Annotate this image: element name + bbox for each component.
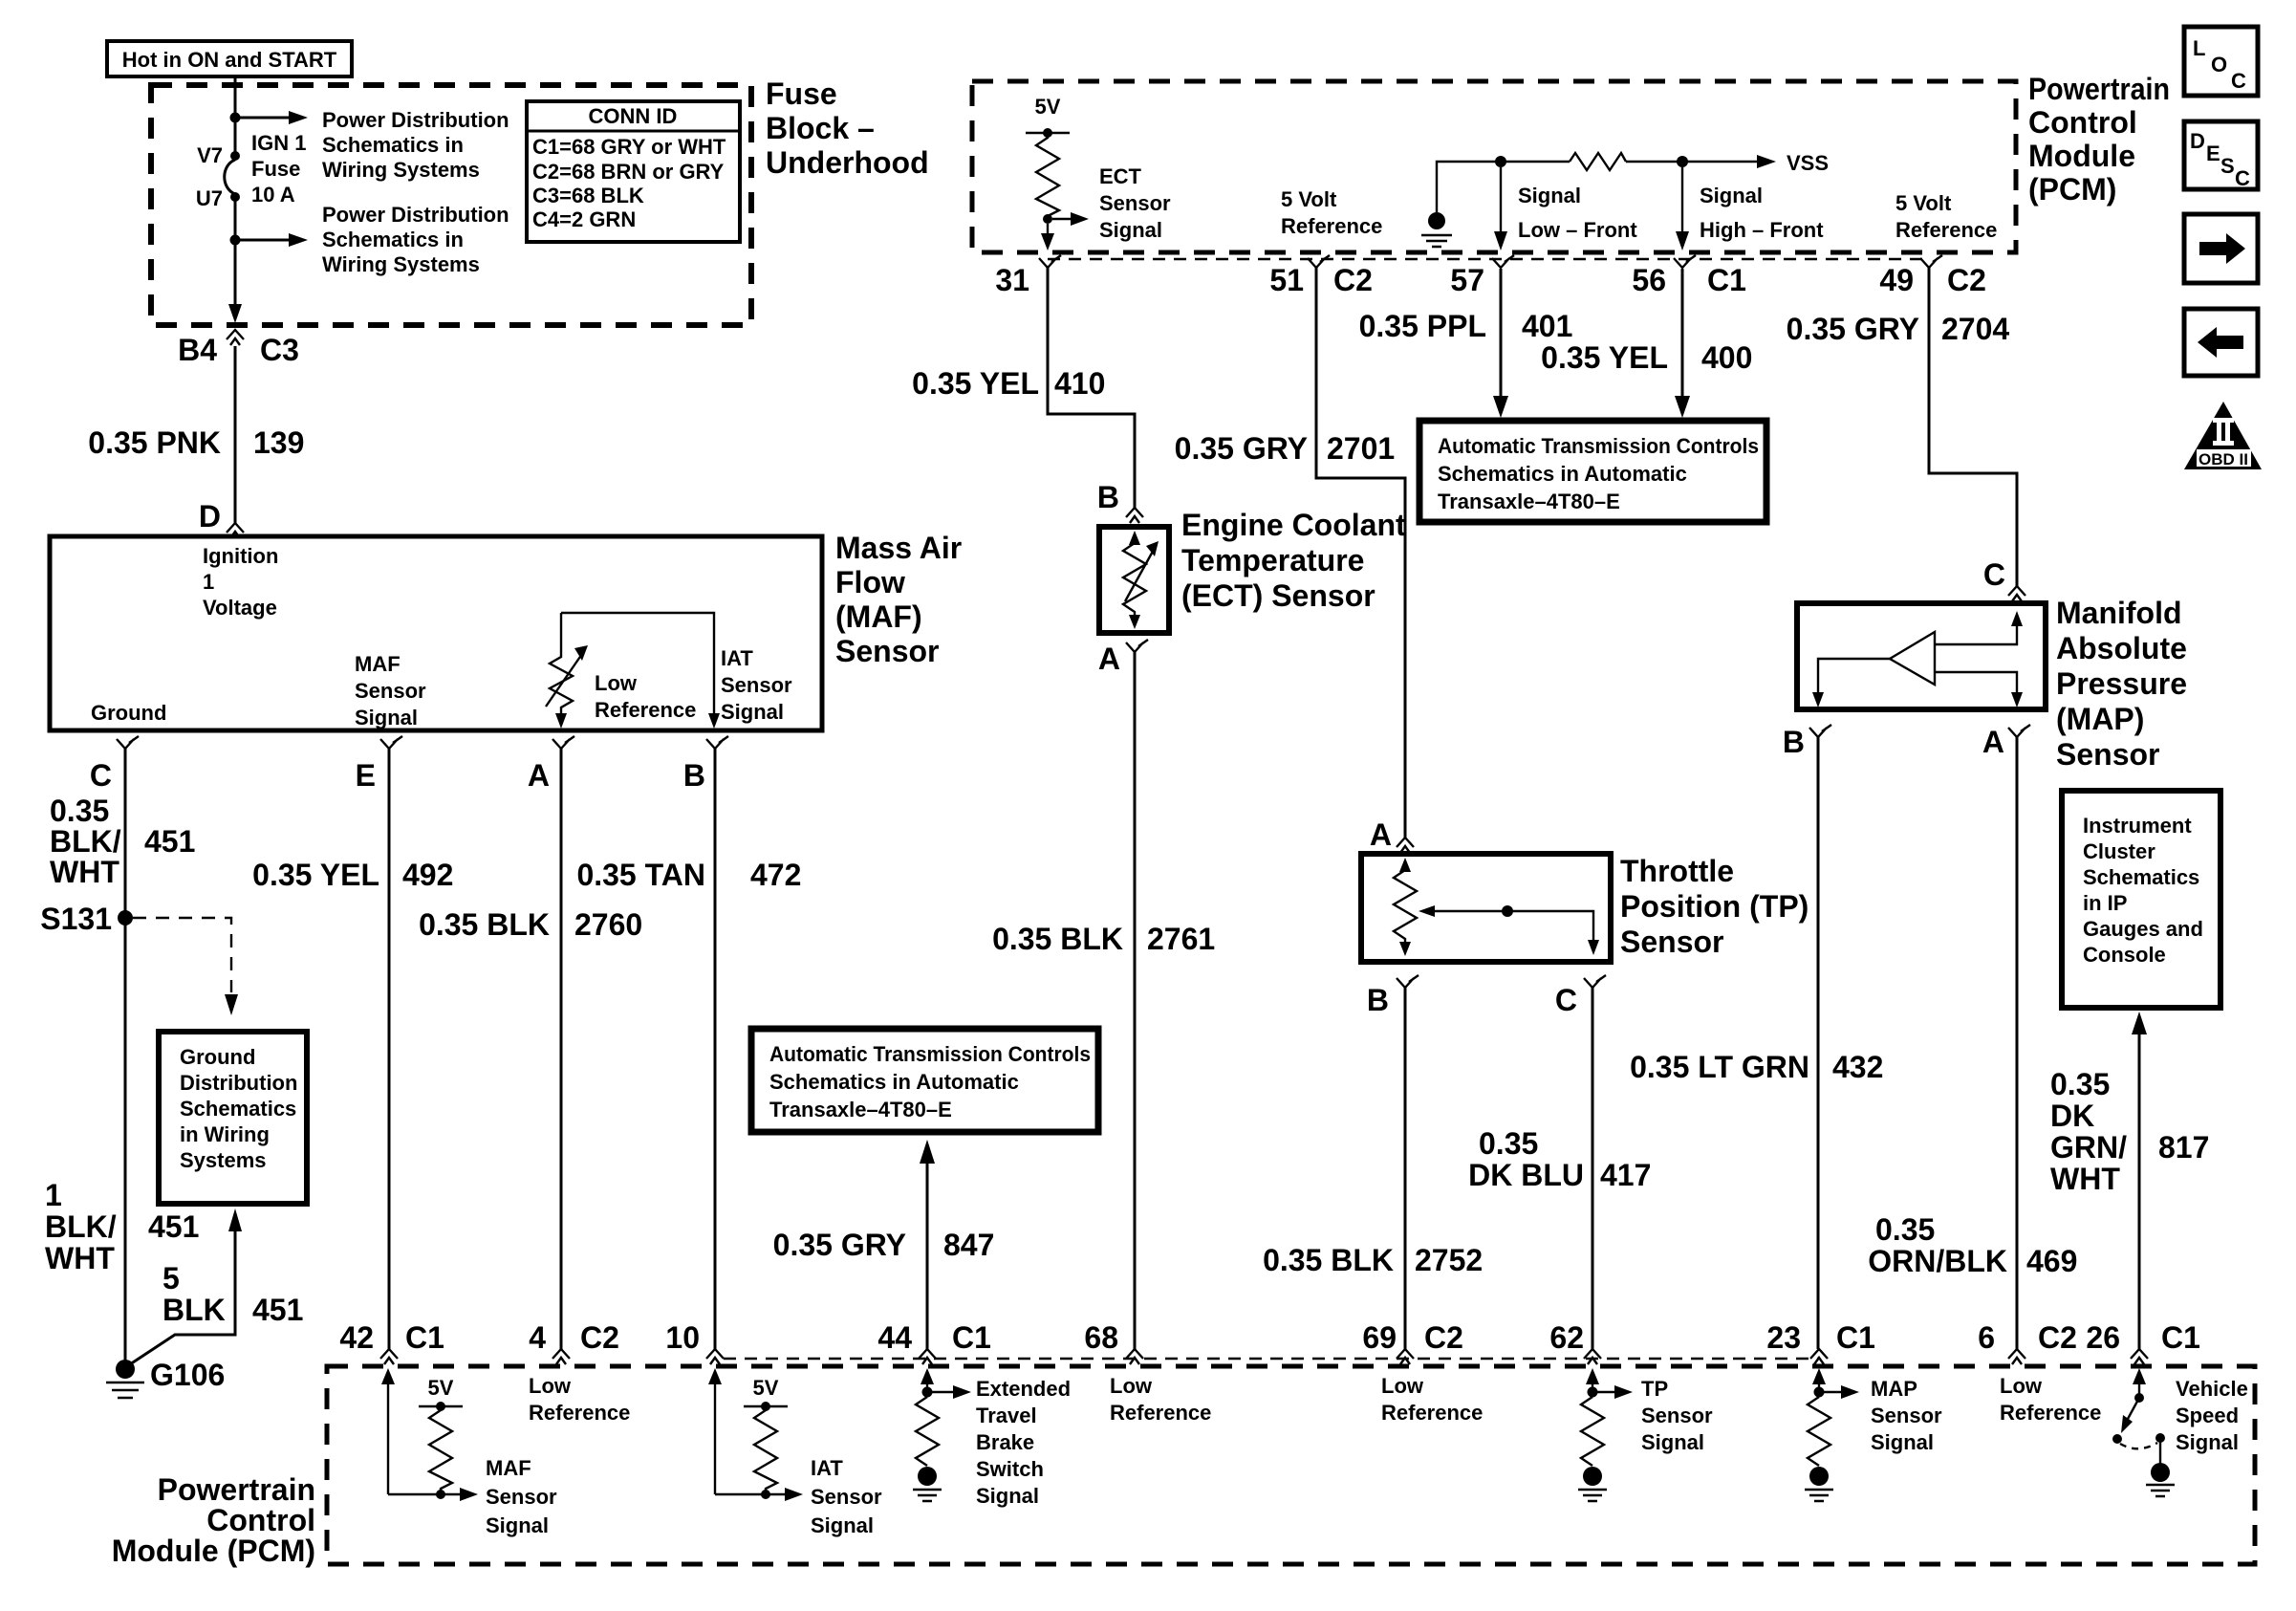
svg-text:139: 139	[253, 425, 304, 460]
svg-text:High – Front: High – Front	[1700, 218, 1824, 242]
svg-text:C: C	[90, 758, 112, 793]
svg-text:451: 451	[148, 1209, 199, 1244]
svg-text:C2=68 BRN or GRY: C2=68 BRN or GRY	[532, 160, 725, 184]
svg-text:WHT: WHT	[45, 1241, 115, 1275]
svg-text:Reference: Reference	[1110, 1401, 1211, 1425]
svg-text:CONN ID: CONN ID	[589, 104, 678, 128]
wire: arrow down to pin 31	[1047, 224, 1049, 235]
svg-text:2760: 2760	[574, 907, 642, 942]
svg-text:Control: Control	[206, 1503, 315, 1537]
svg-text:Extended: Extended	[976, 1377, 1071, 1401]
svg-text:(ECT) Sensor: (ECT) Sensor	[1181, 578, 1375, 613]
svg-text:E: E	[2206, 142, 2220, 165]
wire: 0.35 GRY 2701 pin 51 to TP A	[1316, 268, 1405, 838]
svg-text:Module (PCM): Module (PCM)	[112, 1534, 315, 1568]
svg-text:in IP: in IP	[2083, 891, 2127, 915]
svg-text:OBD II: OBD II	[2199, 450, 2248, 468]
wire: MAP amp bottom line to pin A	[1935, 672, 2017, 694]
svg-text:MAP: MAP	[1871, 1377, 1917, 1401]
svg-text:S: S	[2220, 154, 2235, 178]
svg-text:Hot in ON and START: Hot in ON and START	[122, 48, 337, 72]
svg-text:Signal: Signal	[2176, 1430, 2239, 1454]
wire: 0.35 GRY 2704 pin 49 to MAP C	[1929, 268, 2017, 586]
wire: 0.35 PPL 401 pin 57 to ATC box	[1500, 269, 1503, 396]
svg-text:Mass Air: Mass Air	[835, 531, 962, 565]
box: Instrument Cluster Schematics in IP Gauges and Console	[2062, 791, 2220, 1008]
svg-text:Underhood: Underhood	[766, 145, 929, 180]
wire: MAF sensor signal input arrow (pin 42)	[387, 1382, 389, 1494]
svg-text:Power Distribution: Power Distribution	[322, 203, 509, 227]
connector pin A (MAF)	[552, 736, 574, 749]
svg-text:C1: C1	[1836, 1320, 1875, 1355]
box: Throttle Position (TP) Sensor	[1361, 854, 1611, 962]
svg-text:Sensor: Sensor	[721, 673, 792, 697]
svg-text:Pressure: Pressure	[2056, 666, 2187, 701]
svg-text:1: 1	[203, 570, 214, 594]
connector pin 44 C1	[919, 1349, 936, 1364]
svg-text:C2: C2	[1947, 263, 1986, 297]
svg-text:410: 410	[1054, 366, 1105, 401]
svg-text:C: C	[1983, 557, 2005, 592]
box: Engine Coolant Temperature (ECT) Sensor	[1099, 527, 1169, 633]
svg-text:Absolute: Absolute	[2056, 631, 2187, 665]
svg-text:Voltage: Voltage	[203, 596, 277, 620]
svg-text:Low – Front: Low – Front	[1518, 218, 1637, 242]
svg-text:Sensor: Sensor	[1641, 1404, 1713, 1427]
connector pin 31	[1039, 255, 1061, 268]
connector pin E (MAF)	[380, 736, 402, 749]
svg-text:68: 68	[1084, 1320, 1118, 1355]
connector pin 26 C1	[2131, 1349, 2148, 1364]
svg-text:Powertrain: Powertrain	[158, 1472, 315, 1507]
svg-text:U7: U7	[196, 186, 223, 210]
ground (pin 23 circuit)	[1809, 1467, 1829, 1486]
svg-text:10 A: 10 A	[251, 183, 295, 207]
wire: 0.35 ORN/BLK 469 MAP A to PCM 6	[2016, 737, 2019, 1349]
wire: 0.35 GRY 847 PCM 44 up to ATC box	[926, 1162, 929, 1349]
wire: MAP sensor signal arrow (pin 23)	[1818, 1382, 1820, 1392]
svg-text:Fuse: Fuse	[766, 76, 837, 111]
svg-text:Schematics in: Schematics in	[322, 228, 464, 251]
wire: ground up and right to junction	[1437, 162, 1570, 212]
svg-text:23: 23	[1766, 1320, 1801, 1355]
svg-text:0.35 PNK: 0.35 PNK	[88, 425, 221, 460]
svg-text:MAF: MAF	[355, 652, 401, 676]
svg-text:Ground: Ground	[91, 701, 166, 725]
svg-text:Signal: Signal	[1518, 184, 1581, 207]
svg-text:Gauges and: Gauges and	[2083, 917, 2203, 941]
box: Hot in ON and START	[107, 41, 352, 76]
svg-text:492: 492	[402, 858, 453, 892]
svg-text:Signal: Signal	[1641, 1430, 1704, 1454]
connector pin A (MAP)	[2008, 725, 2030, 737]
svg-text:D: D	[2190, 129, 2205, 153]
ground (pin 44 circuit)	[918, 1467, 937, 1486]
svg-text:2752: 2752	[1415, 1243, 1483, 1277]
svg-text:0.35 PPL: 0.35 PPL	[1359, 309, 1486, 343]
icon: OBD II triangle	[2184, 402, 2262, 469]
svg-text:0.35 YEL: 0.35 YEL	[252, 858, 379, 892]
svg-text:Instrument: Instrument	[2083, 814, 2192, 838]
svg-text:TP: TP	[1641, 1377, 1668, 1401]
connector pin B (MAF)	[706, 736, 728, 749]
wire: below fuse to lower junction	[234, 200, 237, 237]
svg-text:O: O	[2211, 53, 2227, 76]
svg-text:Systems: Systems	[180, 1148, 267, 1172]
svg-text:Schematics: Schematics	[180, 1097, 296, 1121]
svg-text:451: 451	[144, 824, 195, 859]
switch: vehicle speed signal (pin 26)	[2138, 1382, 2140, 1398]
svg-text:Sensor: Sensor	[486, 1485, 557, 1509]
svg-text:4: 4	[529, 1320, 546, 1355]
svg-text:ORN/BLK: ORN/BLK	[1868, 1244, 2007, 1278]
svg-text:C: C	[1555, 983, 1577, 1017]
svg-text:62: 62	[1549, 1320, 1584, 1355]
svg-text:Signal: Signal	[1700, 184, 1763, 207]
svg-text:IAT: IAT	[721, 646, 753, 670]
svg-text:31: 31	[995, 263, 1029, 297]
svg-text:Reference: Reference	[529, 1401, 630, 1425]
svg-text:Schematics in Automatic: Schematics in Automatic	[1438, 462, 1687, 486]
wire: thin dashed connector line (bottom PCM pins)	[724, 1358, 1819, 1360]
connector pin C (MAP)	[2008, 586, 2025, 601]
svg-text:5 Volt: 5 Volt	[1281, 187, 1337, 211]
svg-text:C2: C2	[580, 1320, 619, 1355]
svg-text:BLK/: BLK/	[45, 1209, 117, 1244]
svg-text:DK: DK	[2050, 1099, 2094, 1133]
connector pin 4 C2	[552, 1349, 570, 1364]
connector pin B (ECT)	[1126, 508, 1143, 523]
svg-text:Vehicle: Vehicle	[2176, 1377, 2248, 1401]
svg-text:B4: B4	[178, 333, 217, 367]
connector pin 51 C2	[1308, 255, 1330, 268]
svg-text:Schematics in: Schematics in	[322, 133, 464, 157]
node: splice S131	[118, 910, 133, 925]
svg-text:Console: Console	[2083, 943, 2166, 967]
svg-text:0.35: 0.35	[1875, 1212, 1935, 1247]
box: Mass Air Flow (MAF) Sensor	[50, 536, 822, 730]
svg-text:26: 26	[2086, 1320, 2120, 1355]
box: Fuse Block Underhood (dashed)	[151, 85, 751, 325]
svg-text:451: 451	[252, 1293, 303, 1327]
svg-text:C4=2 GRN: C4=2 GRN	[532, 207, 636, 231]
resistor: IAT variable resistor (in MAF box)	[550, 613, 573, 715]
svg-text:0.35 TAN: 0.35 TAN	[576, 858, 705, 892]
wire: MAF E to PCM 42 (0.35 YEL 492)	[388, 749, 391, 1349]
svg-text:Low: Low	[1110, 1374, 1153, 1398]
wire: 0.35 YEL 400 pin 56 to ATC box	[1681, 269, 1684, 396]
wire: 0.35 BLK/WHT 451 from pin C down	[124, 749, 127, 1361]
wire: CONN ID header separator	[527, 130, 740, 133]
wire: TP sensor signal arrow (pin 62)	[1592, 1382, 1593, 1392]
svg-text:Sensor: Sensor	[1620, 925, 1723, 959]
connector pin 6 C2	[2008, 1349, 2025, 1364]
ground G106	[116, 1360, 135, 1379]
box: Manifold Absolute Pressure (MAP) Sensor	[1797, 603, 2046, 709]
svg-text:Power Distribution: Power Distribution	[322, 108, 509, 132]
svg-text:B: B	[1783, 725, 1805, 759]
svg-text:0.35 YEL: 0.35 YEL	[1541, 340, 1668, 375]
svg-text:Ignition: Ignition	[203, 544, 278, 568]
resistor: IAT pull-up (in PCM)	[754, 1406, 777, 1494]
svg-text:Position (TP): Position (TP)	[1620, 889, 1809, 924]
svg-text:2761: 2761	[1147, 922, 1215, 956]
wire: arrow right Extended Travel Brake Switch Signal	[932, 1391, 953, 1393]
node: junction signal low	[1495, 156, 1506, 167]
svg-text:Flow: Flow	[835, 565, 905, 599]
svg-text:C1: C1	[2161, 1320, 2200, 1355]
svg-text:Signal: Signal	[811, 1513, 874, 1537]
svg-text:400: 400	[1701, 340, 1752, 375]
svg-text:57: 57	[1450, 263, 1484, 297]
svg-text:BLK/: BLK/	[50, 824, 121, 859]
svg-text:A: A	[1098, 642, 1120, 676]
wire: to VSS arrow	[1626, 161, 1757, 163]
svg-text:0.35 LT GRN: 0.35 LT GRN	[1630, 1050, 1809, 1084]
icon: LOC box	[2184, 27, 2258, 96]
svg-text:Switch: Switch	[976, 1457, 1044, 1481]
svg-text:B: B	[1367, 983, 1389, 1017]
icon: left arrow box	[2184, 309, 2258, 376]
svg-text:Module: Module	[2028, 139, 2135, 173]
svg-text:V7: V7	[197, 143, 223, 167]
svg-text:ECT: ECT	[1099, 164, 1142, 188]
svg-text:5 Volt: 5 Volt	[1895, 191, 1952, 215]
svg-text:(MAP): (MAP)	[2056, 702, 2144, 736]
svg-text:6: 6	[1978, 1320, 1995, 1355]
svg-text:0.35 GRY: 0.35 GRY	[1787, 312, 1919, 346]
svg-text:MAF: MAF	[486, 1456, 531, 1480]
svg-text:Control: Control	[2028, 105, 2137, 140]
wire: arrow down Signal Low - Front	[1500, 167, 1502, 233]
svg-text:Sensor: Sensor	[835, 634, 939, 668]
svg-text:Low: Low	[2000, 1374, 2043, 1398]
connector pin 23 C1	[1810, 1349, 1828, 1364]
connector pin D at MAF box	[227, 523, 244, 538]
svg-text:C2: C2	[2038, 1320, 2077, 1355]
node: junction signal high	[1677, 156, 1688, 167]
svg-text:Sensor: Sensor	[355, 679, 426, 703]
svg-text:Sensor: Sensor	[2056, 737, 2159, 772]
connector pin 69 C2	[1397, 1349, 1414, 1364]
svg-text:Signal: Signal	[976, 1484, 1039, 1508]
connector pin C (TP)	[1584, 975, 1606, 988]
connector pin A (TP)	[1397, 838, 1414, 853]
connector pin 57	[1492, 255, 1514, 268]
svg-text:A: A	[1982, 725, 2004, 759]
connector pin B4/C3 (fuse block exit)	[227, 330, 244, 345]
svg-text:Powertrain: Powertrain	[2028, 72, 2170, 106]
box: Powertrain Control Module PCM (top, dashed)	[972, 81, 2016, 252]
svg-text:Engine Coolant: Engine Coolant	[1181, 508, 1406, 542]
svg-text:C3=68 BLK: C3=68 BLK	[532, 184, 644, 207]
svg-text:Reference: Reference	[1895, 218, 1997, 242]
svg-text:Automatic Transmission Control: Automatic Transmission Controls	[1438, 434, 1759, 458]
connector pin 10	[706, 1349, 724, 1364]
wire: arrow right ECT Sensor Signal	[1052, 218, 1071, 220]
resistor: ECT thermistor	[1129, 531, 1140, 545]
wire: branch arrow to Power Distribution (upper)	[238, 117, 289, 120]
svg-text:5V: 5V	[1035, 95, 1061, 119]
resistor: ECT pull-up (in PCM)	[1036, 133, 1059, 216]
svg-text:S131: S131	[40, 902, 112, 936]
wire: arrow right MAP Sensor Signal	[1824, 1391, 1841, 1393]
svg-text:472: 472	[750, 858, 801, 892]
box: CONN ID table	[527, 101, 740, 242]
svg-text:0.35: 0.35	[2050, 1067, 2110, 1101]
resistor: TP potentiometer	[1399, 858, 1411, 872]
svg-text:Signal: Signal	[721, 700, 784, 724]
svg-text:2704: 2704	[1941, 312, 2009, 346]
svg-text:E: E	[356, 758, 376, 793]
svg-text:Signal: Signal	[1099, 218, 1162, 242]
wire: from Hot box down into fuse block	[234, 76, 237, 115]
svg-text:Reference: Reference	[595, 698, 696, 722]
svg-text:L: L	[2193, 36, 2205, 60]
box: Automatic Transmission Controls (left)	[751, 1029, 1098, 1132]
wire: IAT sensor signal input arrow (pin 10)	[714, 1382, 716, 1494]
svg-text:417: 417	[1600, 1158, 1651, 1192]
svg-text:817: 817	[2158, 1130, 2209, 1165]
svg-text:0.35 YEL: 0.35 YEL	[912, 366, 1039, 401]
wire: down to fuse block edge with arrow	[234, 243, 237, 304]
svg-text:432: 432	[1832, 1050, 1883, 1084]
connector pin B (MAP)	[1809, 725, 1831, 737]
svg-text:in Wiring: in Wiring	[180, 1122, 270, 1146]
svg-text:C2: C2	[1424, 1320, 1463, 1355]
svg-text:5V: 5V	[428, 1376, 454, 1400]
svg-text:C1=68 GRY or WHT: C1=68 GRY or WHT	[532, 135, 726, 159]
svg-text:5V: 5V	[753, 1376, 779, 1400]
svg-text:0.35: 0.35	[50, 794, 109, 828]
wire: arrow right MAF Sensor Signal	[388, 1493, 460, 1495]
svg-text:0.35 GRY: 0.35 GRY	[773, 1228, 906, 1262]
svg-text:1: 1	[45, 1178, 62, 1212]
svg-text:44: 44	[877, 1320, 912, 1355]
svg-text:0.35 BLK: 0.35 BLK	[992, 922, 1123, 956]
svg-text:10: 10	[665, 1320, 700, 1355]
svg-text:C: C	[2235, 166, 2250, 190]
resistor: brake switch pull (in PCM)	[916, 1397, 939, 1466]
svg-text:Sensor: Sensor	[1871, 1404, 1942, 1427]
connector pin 49 C2	[1920, 255, 1942, 268]
wire: arrow right IAT Sensor Signal	[715, 1493, 785, 1495]
svg-text:C2: C2	[1333, 263, 1373, 297]
box: Powertrain Control Module PCM (bottom, dashed)	[327, 1366, 2255, 1564]
svg-text:Block –: Block –	[766, 111, 875, 145]
icon: right arrow box	[2184, 214, 2258, 283]
wire: between junction and fuse	[234, 120, 237, 153]
wire: 0.35 DK GRN/WHT 817 PCM 26 up to Instrument Cluster	[2138, 1033, 2141, 1349]
wire: 0.35 DK BLU 417 TP C to PCM 62	[1592, 988, 1594, 1349]
ground (pin 62 circuit)	[1583, 1467, 1602, 1486]
wire: 0.35 BLK 2752 TP B to PCM 69	[1404, 988, 1407, 1349]
svg-text:Signal: Signal	[1871, 1430, 1934, 1454]
svg-text:Transaxle–4T80–E: Transaxle–4T80–E	[769, 1098, 952, 1121]
svg-text:A: A	[528, 758, 550, 793]
svg-text:Signal: Signal	[355, 706, 418, 729]
svg-text:Manifold: Manifold	[2056, 596, 2182, 630]
fuse F1: IGN 1 Fuse 10 A	[230, 151, 240, 161]
wire: branch arrow to Power Distribution (lower)	[238, 239, 289, 242]
svg-text:Schematics: Schematics	[2083, 865, 2199, 889]
resistor: MAF pull-up (in PCM)	[429, 1406, 452, 1494]
wire: MAF B to PCM 10 (0.35 TAN 472)	[714, 749, 717, 1349]
svg-text:0.35: 0.35	[1479, 1126, 1538, 1161]
resistor: MAP signal pull (in PCM)	[1808, 1397, 1830, 1466]
icon: DESC box	[2184, 121, 2258, 189]
svg-text:2701: 2701	[1327, 431, 1395, 466]
svg-text:Low: Low	[529, 1374, 572, 1398]
svg-text:Reference: Reference	[2000, 1401, 2101, 1425]
svg-text:0.35 GRY: 0.35 GRY	[1175, 431, 1308, 466]
wire: MAP amp output to pin B	[1818, 659, 1890, 694]
resistor: TP signal pull (in PCM)	[1581, 1397, 1604, 1466]
connector pin 42 C1	[380, 1349, 398, 1364]
node: junction above fuse	[230, 113, 241, 123]
wire: IAT resistor top to pin B (inverted U)	[561, 613, 714, 715]
svg-text:Transaxle–4T80–E: Transaxle–4T80–E	[1438, 490, 1620, 513]
svg-text:C: C	[2231, 69, 2246, 93]
wire: arrow down Signal High - Front	[1681, 167, 1683, 233]
svg-text:Sensor: Sensor	[811, 1485, 882, 1509]
svg-text:Temperature: Temperature	[1181, 543, 1364, 577]
wire: brake switch signal arrow (pin 44)	[926, 1382, 928, 1392]
svg-text:Schematics in Automatic: Schematics in Automatic	[769, 1070, 1019, 1094]
svg-text:49: 49	[1879, 263, 1914, 297]
svg-text:B: B	[683, 758, 705, 793]
svg-text:Wiring Systems: Wiring Systems	[322, 158, 480, 182]
svg-text:Automatic Transmission Control: Automatic Transmission Controls	[769, 1042, 1091, 1066]
connector pin C (MAF)	[117, 736, 139, 749]
wire: 0.35 YEL 410 pin 31 to ECT B	[1048, 268, 1135, 508]
svg-text:Wiring Systems: Wiring Systems	[322, 252, 480, 276]
svg-text:(PCM): (PCM)	[2028, 172, 2116, 207]
wire: 0.35 PNK 139 down to MAF	[234, 346, 237, 523]
svg-text:G106: G106	[150, 1358, 225, 1392]
svg-text:GRN/: GRN/	[2050, 1130, 2127, 1165]
wire: thin dashed connector line (top PCM pins)	[1048, 258, 1929, 260]
svg-text:C1: C1	[405, 1320, 444, 1355]
connector pin 68	[1126, 1349, 1143, 1364]
svg-text:Ground: Ground	[180, 1045, 255, 1069]
svg-text:IGN 1: IGN 1	[251, 131, 306, 155]
svg-text:0.35 BLK: 0.35 BLK	[1263, 1243, 1394, 1277]
wire: dashed branch from S131 to Ground Distribution box	[133, 918, 231, 992]
node: junction below fuse	[230, 235, 241, 246]
op-amp: MAP sensor amplifier triangle	[1890, 632, 1935, 685]
svg-text:847: 847	[943, 1228, 994, 1262]
svg-text:VSS: VSS	[1787, 151, 1829, 175]
svg-text:A: A	[1370, 817, 1392, 852]
ground (pin 26 circuit)	[2151, 1463, 2170, 1482]
box: Ground Distribution Schematics in Wiring Systems	[159, 1032, 307, 1204]
svg-text:C1: C1	[952, 1320, 991, 1355]
ground (PCM internal, VSS circuit)	[1428, 212, 1445, 229]
svg-text:WHT: WHT	[2050, 1162, 2120, 1196]
svg-text:C3: C3	[260, 333, 299, 367]
svg-text:42: 42	[339, 1320, 374, 1355]
connector pin 56 C1	[1674, 255, 1696, 268]
svg-text:Sensor: Sensor	[1099, 191, 1171, 215]
svg-text:51: 51	[1269, 263, 1304, 297]
svg-text:Reference: Reference	[1381, 1401, 1483, 1425]
svg-text:5: 5	[162, 1261, 180, 1295]
svg-text:(MAF): (MAF)	[835, 599, 922, 634]
svg-text:D: D	[199, 499, 221, 533]
svg-text:Fuse: Fuse	[251, 157, 300, 181]
wire: MAF A to PCM 4 (0.35 BLK 2760)	[560, 749, 563, 1349]
